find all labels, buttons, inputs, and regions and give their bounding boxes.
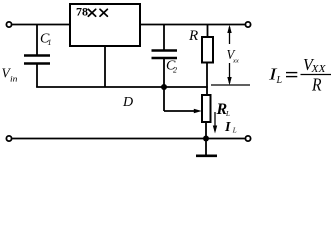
svg-text:I: I [224, 120, 231, 135]
svg-text:L: L [232, 127, 237, 135]
svg-text:D: D [122, 95, 133, 110]
svg-text:L: L [225, 110, 230, 118]
svg-text:R: R [188, 28, 198, 44]
svg-text:L: L [276, 75, 283, 86]
svg-text:78: 78 [76, 5, 88, 19]
svg-text:2: 2 [173, 66, 177, 75]
svg-text:XX: XX [310, 64, 326, 75]
svg-text:xx: xx [232, 58, 239, 65]
svg-text:R: R [311, 75, 321, 95]
svg-text:in: in [10, 75, 18, 84]
svg-text:1: 1 [48, 38, 52, 47]
